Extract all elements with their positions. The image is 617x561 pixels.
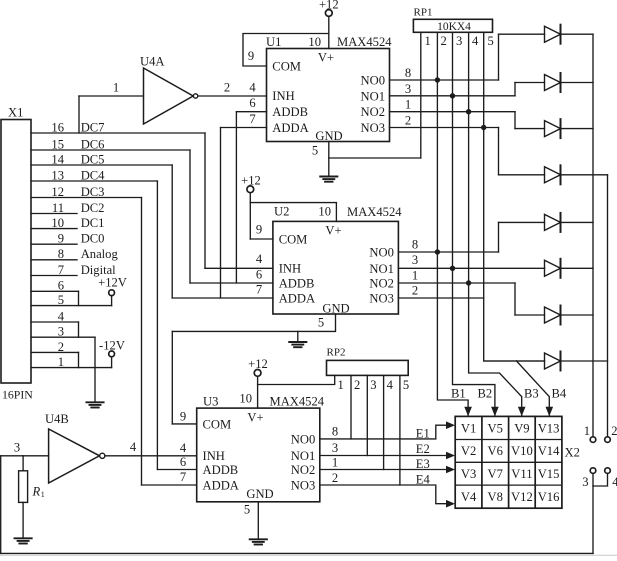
svg-text:NO2: NO2 [361,105,386,119]
terminal +12V [98,276,127,306]
svg-text:DC7: DC7 [81,120,105,134]
svg-text:NO2: NO2 [291,463,316,477]
svg-text:15: 15 [51,137,64,151]
svg-text:E2: E2 [416,442,430,456]
svg-text:4: 4 [180,441,187,455]
RP1 pin 4 / net B3 [469,32,522,415]
wire X2-3 to bottom rail [592,486,594,553]
svg-text:4: 4 [256,252,263,266]
wire U2 ADDB from DC6 [190,150,273,283]
svg-text:NO1: NO1 [361,89,386,103]
inverter U4B [45,412,105,483]
wire +12 to U2 V+ [250,203,336,222]
svg-text:V1: V1 [461,421,476,435]
wire pin6-pin5 join [78,291,80,305]
ground under U3 [250,539,267,544]
U1 pin name ADDA [272,121,308,135]
RP2 pin 5 [400,375,409,485]
arrow E4 into X2 [446,500,455,508]
svg-text:8: 8 [332,425,338,439]
X1 pin 8 wire [31,247,118,261]
RP1 pin 2 / net B1 [437,32,468,415]
svg-text:7: 7 [249,112,255,126]
svg-text:E3: E3 [416,457,430,471]
RP2 pin 3 [367,375,376,455]
svg-text:8: 8 [412,238,418,252]
svg-text:X1: X1 [8,106,23,120]
wire U1 ADDA [221,112,267,128]
U2 pin name COM [279,232,308,246]
svg-text:V+: V+ [247,411,263,425]
svg-text:X2: X2 [565,446,580,460]
svg-text:V8: V8 [488,490,503,504]
terminal X2-3 [582,468,596,489]
svg-text:U4B: U4B [45,412,69,426]
arrow B4 into X2 [546,387,567,417]
U2 pin name V+ [325,224,341,238]
svg-text:7: 7 [180,470,186,484]
X1 pin 10 wire [31,216,104,230]
svg-text:INH: INH [279,262,301,276]
connector X1 body [1,106,31,384]
svg-text:12: 12 [51,185,64,199]
svg-text:5: 5 [312,144,318,158]
U3 pin 10 label [239,392,252,406]
RP1 pin 3 / net B2 [453,32,495,415]
svg-text:3: 3 [456,34,462,48]
svg-text:1: 1 [405,98,411,112]
X1 pin 16 wire [31,120,205,134]
svg-text:GND: GND [246,487,273,501]
U3 pin name NO0 [291,432,316,446]
svg-text:4: 4 [130,440,137,454]
wire U4A output to U1 INH [198,80,267,96]
wire U1 ADDB [236,96,266,112]
svg-text:U2: U2 [274,205,289,219]
junction dots RP1 with U1 outputs [435,77,487,130]
svg-text:5: 5 [403,378,409,392]
X1 pin 3 wire [31,325,95,339]
svg-text:16PIN: 16PIN [2,388,33,402]
wire U4B output to U3 INH [105,440,197,456]
terminal +12 above U3 [248,357,268,408]
svg-text:V+: V+ [325,224,341,238]
U2 pin name ADDB [279,276,315,290]
X1 pin 1 wire [31,355,112,369]
U2 pin name NO3 [369,292,394,306]
svg-text:8: 8 [405,66,411,80]
svg-text:6: 6 [256,268,262,282]
U1 pin 10 label [308,35,321,49]
svg-text:14: 14 [51,152,64,166]
svg-text:1: 1 [584,424,590,438]
terminal X2-2 [605,424,617,443]
junction dots RP1 with U2 outputs [435,249,472,285]
wire U1 NO1 [390,82,516,96]
wire U1 NO0 [390,66,499,80]
arrow E2 into X2 [446,452,455,460]
U2 pin name NO1 [369,262,394,276]
RP2 pin 4 [384,375,394,469]
wire U2 GND [172,314,335,331]
U2 pin name ADDA [279,291,315,305]
svg-text:V11: V11 [511,467,532,481]
X1 pin 2 wire [31,340,79,354]
svg-text:U4A: U4A [140,55,165,69]
svg-text:INH: INH [203,449,225,463]
U3 pin name NO3 [291,479,316,493]
svg-text:3: 3 [58,325,64,339]
svg-text:1: 1 [425,34,431,48]
svg-text:5: 5 [244,503,250,517]
svg-text:DC0: DC0 [81,232,105,246]
wire pin3 to ground [94,337,96,402]
svg-text:ADDB: ADDB [272,105,308,119]
X1 pin 13 wire [31,168,157,182]
svg-text:1: 1 [412,269,418,283]
diode D3 [515,112,593,138]
svg-text:ADDA: ADDA [279,291,315,305]
svg-text:V9: V9 [514,421,529,435]
diode D8 [484,352,608,371]
svg-text:COM: COM [203,417,232,431]
wire U1 NO2 [390,98,516,112]
svg-text:V7: V7 [488,467,503,481]
U2 pin name NO0 [369,246,394,260]
svg-text:4: 4 [472,34,479,48]
wire U3 ADDB from DC4 [157,181,196,470]
svg-text:B3: B3 [524,387,539,401]
svg-text:B4: B4 [552,387,567,401]
wire U1 ADDB vertical to U2 ADDB [235,112,237,283]
svg-text:+12V: +12V [98,276,127,290]
wire U3 NO1 / net E2 [320,441,447,456]
svg-text:V6: V6 [488,444,503,458]
svg-text:NO3: NO3 [369,292,394,306]
U3 INH pin 4 label [180,441,187,455]
svg-text:V15: V15 [538,467,560,481]
svg-text:E1: E1 [416,427,430,441]
wire U2 NO1 to diode D6 [398,253,544,268]
terminal X2-1 [584,424,596,443]
svg-text:5: 5 [58,293,64,307]
svg-text:U3: U3 [203,395,218,409]
X1 pin 14 wire [31,152,172,166]
diode D7 [515,283,593,325]
X1 pin 4 wire [31,309,79,323]
op chip U3 MAX4524 body [197,395,325,502]
svg-text:3: 3 [332,441,338,455]
U3 pin name ADDB [203,463,239,477]
svg-text:10: 10 [308,35,321,49]
svg-text:E4: E4 [416,472,431,486]
svg-text:B2: B2 [478,387,493,401]
svg-text:2: 2 [611,424,617,438]
RP2 pin 2 [351,375,360,439]
svg-text:V10: V10 [511,444,533,458]
svg-text:3: 3 [405,82,411,96]
svg-text:4: 4 [249,80,256,94]
wire U2 NO2 to diode D7 [398,269,515,284]
X2 matrix cell labels V1-V16 [461,421,560,504]
connector X2 matrix grid [455,416,580,508]
svg-text:4: 4 [58,309,65,323]
ground under R1 [15,538,32,543]
bottom page border [0,554,617,556]
U1 pin name GND [315,129,342,143]
svg-text:INH: INH [272,89,294,103]
op chip U1 MAX4524 body [266,35,392,142]
svg-text:11: 11 [52,201,64,215]
svg-text:NO0: NO0 [361,74,386,88]
ground under X1 [86,402,103,407]
svg-text:V2: V2 [461,444,476,458]
U3 pin name V+ [247,411,263,425]
svg-text:2: 2 [354,378,360,392]
wire GND to U3 COM [171,331,173,424]
svg-text:6: 6 [180,455,186,469]
arrow E3 into X2 [446,466,455,474]
svg-text:4: 4 [612,475,617,489]
svg-text:9: 9 [256,223,262,237]
U1 INH pin 4 label [0,0,1,1]
svg-text:9: 9 [248,49,254,63]
svg-text:COM: COM [279,232,308,246]
wire U1 GND [312,142,421,177]
arrow B2 into X2 [478,387,499,417]
wire U3 NO3 / net E4 [320,471,447,504]
svg-text:V12: V12 [511,490,533,504]
U2 pin name GND [322,302,349,316]
U1 pin name NO1 [361,89,386,103]
svg-text:NO2: NO2 [369,277,394,291]
svg-text:RP1: RP1 [414,7,433,19]
resistor pack RP2 body [327,347,409,376]
svg-text:NO1: NO1 [369,262,394,276]
label 16PIN [2,388,33,402]
wire +12 to U2 COM [250,193,273,239]
svg-text:16: 16 [51,120,64,134]
X1 pin 7 wire [31,263,116,277]
U3 pin name ADDA [203,478,239,492]
svg-text:B1: B1 [451,387,466,401]
svg-text:V14: V14 [538,444,560,458]
arrow B3 into X2 [518,387,539,417]
U1 pin name COM [272,59,301,73]
ground under U1 [320,177,337,182]
svg-text:ADDB: ADDB [279,276,315,290]
svg-text:5: 5 [488,34,494,48]
U1 pin name ADDB [272,105,308,119]
svg-text:1: 1 [58,355,64,369]
terminal X2-4 [605,468,617,489]
U3 pin name NO1 [291,449,316,463]
svg-text:7: 7 [256,283,262,297]
svg-text:NO1: NO1 [291,449,316,463]
wire U3 NO0 / net E1 [320,425,447,441]
U3 pin name COM [203,417,232,431]
svg-text:2: 2 [58,340,64,354]
svg-text:ADDA: ADDA [272,121,308,135]
svg-text:R: R [32,485,41,499]
svg-text:Analog: Analog [81,247,119,261]
svg-text:DC4: DC4 [81,168,105,182]
wire U2 INH from DC7 [205,133,273,268]
svg-text:2: 2 [405,114,411,128]
U1 COM loop wire to V+ [243,34,329,67]
svg-text:6: 6 [249,96,255,110]
X1 pin 9 wire [31,232,104,246]
diode D6 [545,259,594,278]
U3 pin name INH [203,449,225,463]
svg-text:9: 9 [58,232,64,246]
U2 pin name INH [279,262,301,276]
svg-text:U1: U1 [266,35,281,49]
wire U2 ADDA from DC5 [172,165,273,298]
wire pin2-pin1 join [78,352,80,367]
wire pin4-pin3 join [78,322,80,337]
resistor R1 [19,456,45,538]
X1 pin 6 wire [31,279,79,293]
X1 pin 15 wire [31,137,190,151]
RP2 pin 1 to +12 [258,375,344,392]
diode D2 [515,73,593,96]
diode D4 [499,128,608,185]
wire X2-3/4 loop [593,473,608,486]
svg-text:3: 3 [14,441,20,455]
U2 pin name NO2 [369,277,394,291]
svg-text:8: 8 [58,247,64,261]
wire diode cathode bus 1 [592,34,594,437]
svg-text:3: 3 [412,253,418,267]
svg-text:1: 1 [338,378,344,392]
svg-text:NO3: NO3 [291,479,316,493]
svg-text:5: 5 [318,316,324,330]
wire U1 NO3 [390,114,499,128]
svg-text:MAX4524: MAX4524 [270,395,325,409]
net B4 diagonal [517,361,550,415]
svg-text:4: 4 [387,378,394,392]
svg-text:MAX4524: MAX4524 [337,35,392,49]
wire U2 NO3 to RP1 pin5 [398,284,483,299]
svg-text:2: 2 [224,81,230,95]
wire U3 NO2 / net E3 [320,455,447,471]
inverter U4A [140,55,198,125]
resistor pack RP1 body [413,7,492,34]
svg-text:1: 1 [113,81,119,95]
svg-text:V5: V5 [488,421,503,435]
svg-text:2: 2 [332,471,338,485]
svg-text:V3: V3 [461,467,476,481]
terminal +12 above U1 [319,0,339,49]
svg-text:V+: V+ [318,51,334,65]
U1 pin name NO3 [361,121,386,135]
svg-text:V4: V4 [461,490,477,504]
op chip U2 MAX4524 body [273,205,402,315]
RP1 pin 1 [421,32,431,158]
wire bottom rail [1,552,593,554]
arrow B1 into X2 [451,387,472,417]
ground under U2 [289,331,306,347]
svg-text:DC3: DC3 [81,185,105,199]
svg-text:7: 7 [58,263,64,277]
terminal +12 left of U2 [241,173,261,192]
wire DC7 tap to U4A input [79,81,144,134]
wire U1 ADDA vertical to U2 ADDA [220,128,222,299]
U3 pin name NO2 [291,463,316,477]
svg-text:6: 6 [58,279,64,293]
wire U2 NO0 to diode D5 [398,238,498,253]
svg-text:9: 9 [180,410,186,424]
svg-text:V16: V16 [538,490,560,504]
wire U3 GND [244,502,258,539]
terminal -12V [99,339,125,368]
U1 pin name NO2 [361,105,386,119]
wire net3 input rail [1,441,49,554]
svg-text:10: 10 [51,216,64,230]
diode D5 [499,213,594,252]
svg-text:1: 1 [41,490,45,499]
svg-text:NO0: NO0 [291,432,316,446]
svg-text:DC2: DC2 [81,201,105,215]
svg-text:2: 2 [412,284,418,298]
svg-text:MAX4524: MAX4524 [347,205,402,219]
U1 pin name V+ [318,51,334,65]
RP1 pin 5 / diode 8 feed [484,32,545,361]
svg-text:10KX4: 10KX4 [437,21,471,33]
svg-text:2: 2 [441,34,447,48]
U3 pin name GND [246,487,273,501]
diode D1 [499,25,594,80]
svg-text:1: 1 [332,455,338,469]
svg-text:10: 10 [239,392,252,406]
svg-text:3: 3 [370,378,376,392]
svg-text:ADDB: ADDB [203,463,239,477]
wire diode cathode bus 2 [607,175,609,437]
arrow E1 into X2 [446,421,455,429]
wire U3 COM from GND net [172,410,196,424]
svg-text:DC5: DC5 [81,152,105,166]
svg-text:DC1: DC1 [81,216,105,230]
svg-text:NO3: NO3 [361,121,386,135]
wire U3 ADDA from DC3 [142,198,197,486]
U1 pin name INH [272,89,294,103]
U1 pin name NO0 [361,74,386,88]
X1 pin 12 wire [31,185,142,199]
svg-text:13: 13 [51,168,64,182]
svg-text:COM: COM [272,59,301,73]
svg-text:NO0: NO0 [369,246,394,260]
svg-text:V13: V13 [538,421,560,435]
X1 pin 11 wire [31,201,104,215]
svg-text:10: 10 [318,205,331,219]
svg-text:ADDA: ADDA [203,478,239,492]
svg-text:DC6: DC6 [81,137,105,151]
svg-text:RP2: RP2 [327,347,346,359]
svg-text:3: 3 [582,475,588,489]
X1 pin 5 wire [31,293,112,307]
